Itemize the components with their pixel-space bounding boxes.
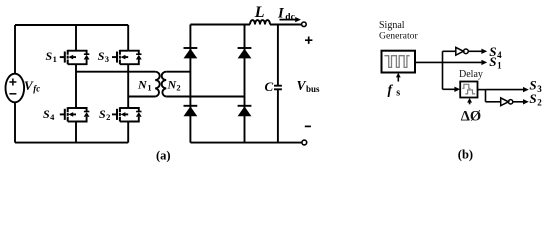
svg-text:s: s — [396, 88, 400, 99]
svg-text:Signal: Signal — [379, 20, 405, 31]
svg-text:S: S — [529, 91, 536, 106]
svg-text:Delay: Delay — [459, 69, 483, 80]
svg-text:1: 1 — [53, 54, 57, 64]
svg-text:S: S — [99, 107, 106, 121]
svg-text:dc: dc — [285, 12, 295, 22]
svg-text:(b): (b) — [458, 148, 473, 162]
svg-text:f: f — [388, 82, 394, 97]
svg-text:S: S — [43, 107, 50, 121]
svg-text:C: C — [265, 79, 274, 94]
svg-text:1: 1 — [497, 60, 502, 70]
svg-text:Generator: Generator — [379, 30, 419, 41]
svg-text:(a): (a) — [156, 148, 171, 162]
svg-text:N: N — [137, 77, 148, 91]
svg-text:S: S — [98, 49, 105, 63]
svg-text:S: S — [46, 49, 53, 63]
svg-text:fc: fc — [33, 84, 40, 94]
svg-text:V: V — [297, 78, 307, 93]
svg-text:2: 2 — [106, 112, 110, 122]
svg-text:4: 4 — [497, 50, 502, 60]
svg-text:1: 1 — [147, 83, 151, 93]
svg-text:L: L — [254, 4, 265, 21]
svg-text:4: 4 — [50, 112, 55, 122]
svg-text:2: 2 — [176, 83, 180, 93]
svg-text:2: 2 — [537, 97, 542, 107]
svg-text:3: 3 — [105, 54, 109, 64]
svg-text:S: S — [489, 54, 496, 69]
svg-text:ΔØ: ΔØ — [461, 108, 481, 124]
svg-text:3: 3 — [537, 84, 542, 94]
svg-text:bus: bus — [306, 84, 320, 94]
